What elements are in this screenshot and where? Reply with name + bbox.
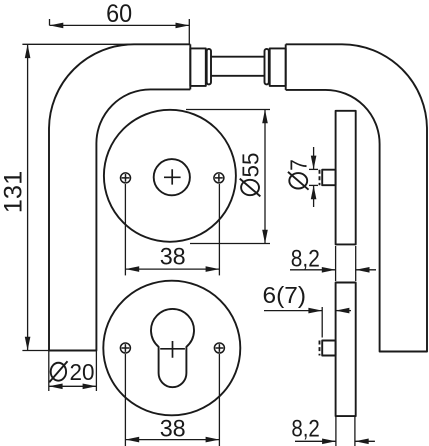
right neck cylinder — [270, 48, 286, 86]
euro profile cylinder hole — [151, 309, 194, 387]
side view upper pin — [322, 170, 335, 186]
label d20 — [49, 359, 94, 385]
right handle neck end cap — [285, 44, 287, 90]
svg-text:38: 38 — [160, 243, 186, 270]
svg-text:20: 20 — [70, 359, 95, 385]
side view lower pin — [322, 341, 335, 356]
dim 38 upper — [125, 184, 219, 275]
dim 38 lower — [125, 354, 219, 446]
svg-text:8,2: 8,2 — [291, 416, 320, 443]
dim 8,2 lower — [295, 416, 375, 446]
spindle bar — [211, 56, 265, 58]
dim 8,2 upper — [290, 246, 376, 281]
lower rosette left screw — [120, 343, 130, 353]
dim 60 — [50, 19, 190, 44]
upper rosette center hole — [154, 159, 190, 195]
right collar ring — [265, 49, 269, 85]
svg-text:131: 131 — [0, 171, 28, 214]
dim diameter 55 — [186, 110, 270, 244]
left neck cylinder — [190, 48, 206, 86]
dim diameter 7 — [309, 147, 318, 207]
lower rosette right screw — [214, 343, 224, 353]
dim 6(7) — [264, 307, 351, 338]
side view upper rosette plate — [336, 111, 356, 245]
svg-text:7: 7 — [286, 159, 312, 171]
svg-text:6(7): 6(7) — [263, 282, 307, 308]
upper rosette right screw — [214, 173, 224, 183]
side view lower rosette plate — [336, 283, 356, 417]
right lever handle outline — [286, 44, 427, 351]
dimension lines — [22, 19, 376, 446]
left collar ring — [207, 49, 211, 85]
upper rosette left screw — [121, 173, 131, 183]
upper rosette circle — [104, 110, 236, 242]
left lever handle outline — [49, 44, 190, 350]
label d55 — [237, 153, 263, 197]
lower rosette circle — [103, 281, 240, 416]
svg-text:38: 38 — [160, 416, 186, 443]
lower rosette key cross — [160, 341, 185, 358]
svg-text:60: 60 — [106, 0, 132, 28]
left handle neck end cap — [189, 44, 191, 89]
svg-text:8,2: 8,2 — [291, 246, 320, 273]
dim diameter 20 — [49, 351, 97, 392]
side view upper pin hidden edge (dashed) — [319, 170, 321, 186]
svg-text:55: 55 — [237, 153, 263, 178]
label d7 — [286, 159, 312, 189]
dim 131 — [22, 44, 134, 350]
side view lower pin hidden edge (dashed) — [319, 341, 321, 356]
upper rosette spindle cross — [164, 169, 181, 184]
screws — [120, 173, 224, 353]
